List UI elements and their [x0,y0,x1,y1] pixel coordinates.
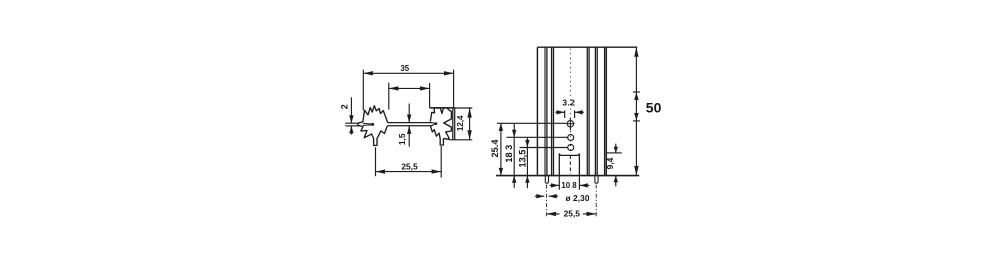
right view: hole 3 [568,145,574,151]
svg-text:13,5: 13,5 [517,150,527,168]
right view: extrusion fin lines [545,47,605,175]
svg-text:35: 35 [400,64,409,73]
right view: right edge [605,47,607,175]
left profile: star fin cluster left [358,106,388,146]
right view: left pin [545,176,548,184]
dimension 25,5 (pin spacing) [547,209,597,219]
svg-text:25,5: 25,5 [401,162,418,172]
dimension 3,2 (top slot width) [555,98,584,118]
dimension 25,5 (left view bottom width) [376,146,442,178]
dimension 13,5 [517,137,567,188]
svg-text:10 8: 10 8 [561,181,577,190]
left profile: web between fin clusters [388,123,432,126]
left profile: star fin cluster right [430,108,451,145]
dimension 12,4 (bar height) [430,108,473,140]
svg-text:1,5: 1,5 [397,133,407,145]
svg-text:25.4: 25.4 [490,139,500,158]
dimension 25.4 (hole height) [490,123,566,175]
svg-text:3.2: 3.2 [562,98,575,108]
right view: right pin [595,176,598,184]
inner channel dimension (unlabeled) [389,83,430,110]
svg-text:ø 2,30: ø 2,30 [565,193,589,203]
dimension 9,4 (slot height) [605,144,622,187]
dimension 1,5 (web thickness) [397,104,411,147]
svg-text:9,4: 9,4 [605,157,615,169]
svg-text:25,5: 25,5 [564,209,581,219]
left profile: right mounting bar [430,108,455,140]
svg-text:18 3: 18 3 [504,145,514,163]
dimension 18,3 [504,123,567,187]
svg-text:50: 50 [646,99,662,115]
right view: body outline [496,47,639,175]
right view: hole 2 [568,135,574,141]
right pin centerline [595,185,597,218]
right view: bottom slot notch [559,153,579,175]
dimension 50 (overall height) [633,47,662,175]
dimension ø 2,30 (pin diameter) [535,193,590,203]
right view: mounting hole with crosshair [566,118,574,131]
left pin centerline [546,185,548,218]
svg-text:2: 2 [339,104,349,109]
svg-text:12,4: 12,4 [456,115,465,131]
dimension 10,8 (slot width) [550,176,590,190]
dimension 35 (left view overall width) [363,64,453,110]
dimension 2 (fin thickness) [339,97,359,134]
right view: vertical centerline [569,49,571,174]
